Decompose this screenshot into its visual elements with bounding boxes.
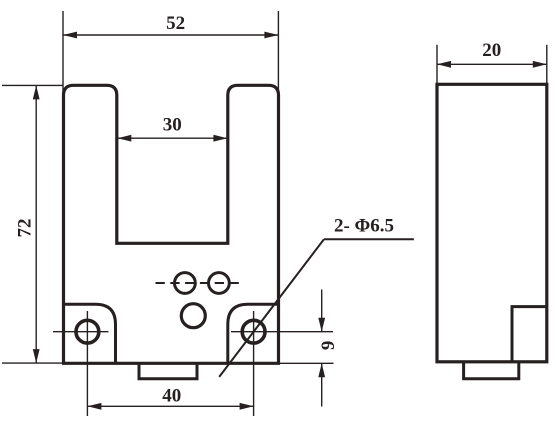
left boss contour: [64, 304, 116, 363]
front view bottom tab: [139, 363, 197, 378]
svg-text:9: 9: [318, 341, 339, 351]
dimension 30 line: [117, 137, 227, 139]
dimension 9 extension line bottom: [280, 362, 334, 364]
svg-text:40: 40: [162, 385, 181, 406]
dimension 52 extension line right: [277, 11, 279, 96]
svg-text:52: 52: [166, 13, 185, 34]
mounting hole right crosshair horizontal / extension for dim 9: [231, 331, 333, 333]
dimension 20 arrow left: [437, 61, 451, 68]
dimension 52 extension line left: [62, 11, 64, 96]
dimension 72 extension line top: [2, 84, 64, 86]
right boss contour: [228, 304, 279, 363]
svg-text:30: 30: [163, 114, 182, 135]
indicator circle: [181, 304, 205, 328]
mounting hole left crosshair vertical / extension: [86, 311, 88, 416]
dimension 20 line: [437, 63, 547, 65]
dimension 72 arrow top: [33, 85, 40, 99]
svg-text:20: 20: [482, 40, 501, 61]
dimension 20 extension line left: [436, 45, 438, 84]
side view connector block: [512, 307, 547, 362]
dimension 9 arrow lower: [318, 363, 325, 377]
dimension 9 arrow upper: [318, 318, 325, 332]
leader 2-phi6.5 horizontal segment: [324, 238, 414, 240]
mounting hole left crosshair horizontal: [53, 331, 109, 333]
svg-text:2- Φ6.5: 2- Φ6.5: [334, 216, 394, 237]
dimension 52 arrow right: [264, 32, 278, 39]
dimension 72 line: [35, 85, 37, 363]
dimension 40 arrow right: [240, 403, 254, 410]
leader 2-phi6.5 diagonal segment: [219, 239, 324, 377]
dimension 40 arrow left: [87, 403, 101, 410]
side view bottom tab: [464, 362, 519, 379]
dimension 20 extension line right: [546, 45, 548, 84]
dimension 9 line upper segment: [321, 290, 323, 332]
dimension 40 line: [87, 405, 253, 407]
dimension 72 extension line bottom: [2, 362, 64, 364]
dimension 72 arrow bottom: [33, 349, 40, 363]
dimension 30 arrow right: [213, 135, 227, 142]
optical element circle left: [175, 273, 196, 294]
dimension 52 arrow left: [63, 32, 77, 39]
mounting hole left: [76, 320, 99, 343]
dimension 20 arrow right: [533, 61, 547, 68]
dimension 9 line lower segment: [321, 363, 323, 406]
dimension 52 line: [63, 34, 278, 36]
mounting hole right: [242, 320, 265, 343]
mounting hole right crosshair vertical / extension: [253, 311, 255, 416]
svg-text:72: 72: [14, 219, 35, 238]
optical element circle right: [209, 273, 230, 294]
front view outline: [64, 85, 279, 363]
side view outline: [437, 84, 547, 362]
dimension 30 arrow left: [117, 135, 131, 142]
optical axis dashed centerline: [156, 282, 245, 284]
